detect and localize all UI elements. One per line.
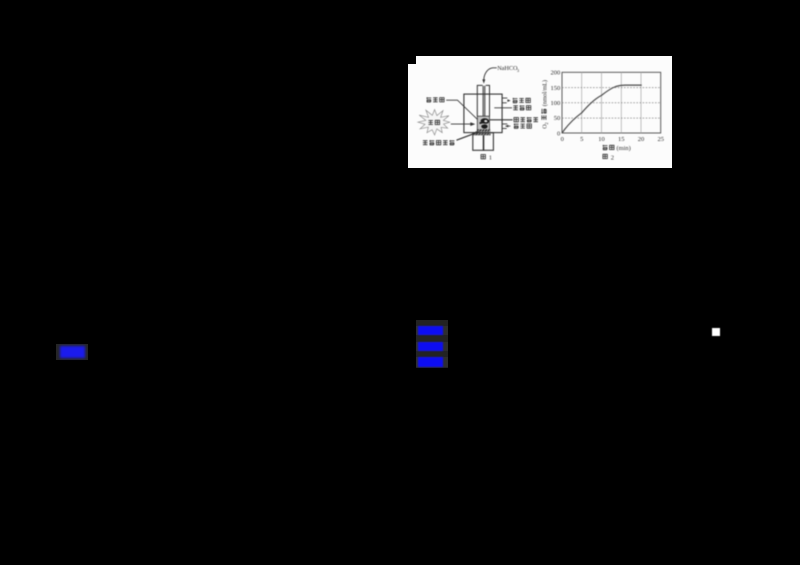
svg-text:150: 150 [551,85,561,92]
光照 text inside starburst [428,120,433,125]
svg-text:1: 1 [489,155,492,162]
top tube outer walls [477,85,489,116]
x axis title 时间 (min) [603,145,631,152]
vertical gridlines [582,72,641,133]
outlet small arrow [507,99,510,102]
svg-text:200: 200 [551,70,561,77]
outlet pipe stub (出水口) [502,98,507,103]
svg-text:20: 20 [638,136,645,143]
inner tube (NaHCO3 channel, gray filled) [483,86,486,116]
svg-text:0: 0 [561,136,564,143]
y tick labels [551,70,561,138]
oxygen electrode leader line with arrow [457,131,480,140]
fruit slice label 果肉薄片 [514,117,538,122]
caption 图 1 [481,155,492,162]
inlet pipe stub (进水口) [502,124,507,128]
NaHCO3 label [497,65,520,73]
water bath label 水浴室 [513,105,531,110]
svg-text:15: 15 [618,136,625,143]
horizontal dashed gridlines [562,88,661,119]
svg-text:5: 5 [580,136,583,143]
caption 图 2 [603,154,614,161]
NaHCO3 leader arrow (curved, pointing down into tube mouth) [482,68,497,84]
svg-text:2: 2 [611,155,614,162]
bottom tube [473,133,494,151]
fruit slice leader [490,119,513,121]
reaction chamber label 反应室 [427,97,445,102]
small white square marker [712,328,720,336]
inlet label 进水口 [514,124,532,129]
reaction chamber leader line [446,100,477,119]
svg-text:100: 100 [551,100,561,107]
x tick labels [561,136,664,143]
svg-text:10: 10 [598,136,605,143]
white figure panel [408,56,672,168]
reaction chamber (gray, with fruit slices) [477,116,489,130]
svg-text:2: 2 [544,122,549,124]
light starburst [418,110,450,135]
water bath label leader [494,107,512,109]
blue link blob left [56,344,88,360]
oxygen electrode strip upper (hatched, in chamber) [477,129,491,131]
y axis title O2 浓度 (nmol/mL) rotated [541,80,549,129]
plot box [562,72,661,133]
outlet label 出水口 [513,98,531,103]
svg-text:NaHCO: NaHCO [497,65,518,72]
svg-text:(nmol/mL): (nmol/mL) [542,80,549,106]
svg-text:50: 50 [554,115,561,122]
tube divider [483,135,484,150]
oxygen electrode strip lower (hatched, tube mouth) [473,133,490,135]
svg-text:25: 25 [657,136,664,143]
inlet small arrow (pointing left) [505,125,508,128]
arrow from starburst to box [451,122,476,126]
O2 concentration curve [562,85,642,133]
fruit slice blobs [481,118,490,124]
svg-text:(min): (min) [617,145,631,152]
svg-text:3: 3 [517,68,520,73]
oxygen electrode label 氧检测电极 [423,140,455,145]
water bath outer box [464,94,502,133]
blue link stack middle [416,320,449,369]
black notch at panel top-left corner [408,56,416,64]
